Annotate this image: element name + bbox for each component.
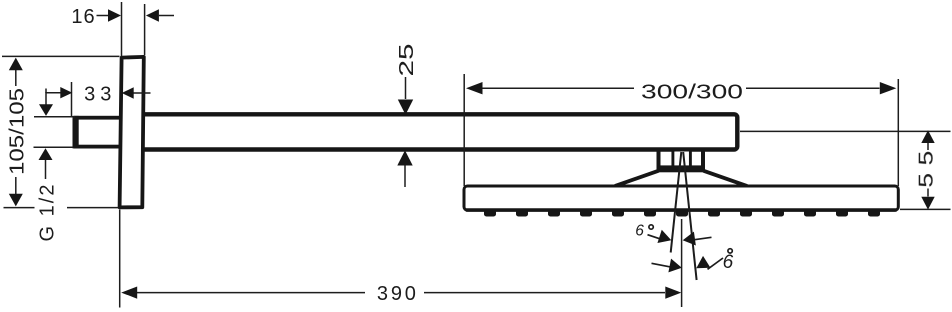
svg-text:390: 390 [377,283,419,305]
svg-text:5 5: 5 5 [916,151,938,188]
svg-text:300/300: 300/300 [641,82,743,104]
svg-text:25: 25 [396,44,418,77]
svg-text:16: 16 [71,6,95,28]
svg-text:105/105: 105/105 [6,88,28,175]
svg-text:6: 6 [723,252,734,273]
svg-text:G 1/2: G 1/2 [37,183,59,242]
svg-text:6: 6 [635,222,644,239]
svg-text:33: 33 [84,83,116,105]
